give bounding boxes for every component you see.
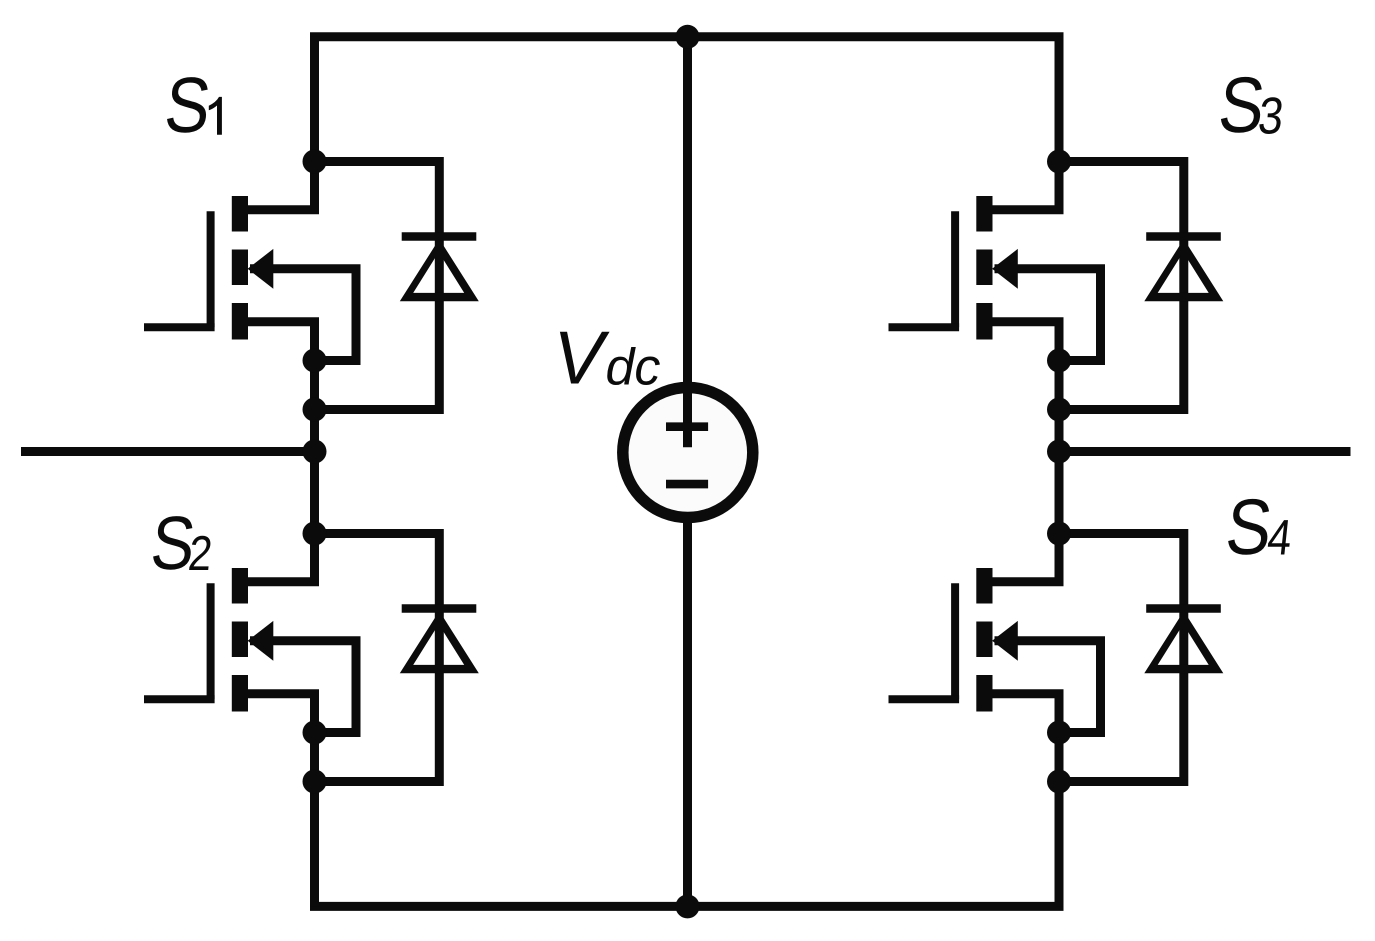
transistor Q1 body arrow (248, 249, 274, 289)
junction source/body node of Q4 (1047, 721, 1071, 745)
diode D1 cathode bar (402, 232, 477, 241)
svg-text:3: 3 (1255, 88, 1286, 146)
junction drain node of Q4 (1047, 522, 1071, 546)
wire right leg lower: Q4 source to bottom rail (993, 694, 1060, 907)
junction drain node of Q2 (303, 522, 327, 546)
wire center bottom: Vdc minus terminal to bottom rail (683, 517, 692, 906)
Vdc minus sign bar (666, 480, 708, 489)
junction top center node (676, 25, 700, 49)
junction diode anode node of D3 (1047, 398, 1071, 422)
wire center top: top rail to Vdc plus terminal (683, 37, 692, 447)
svg-text:S: S (161, 61, 215, 149)
transistor Q1 gate electrode line (207, 211, 215, 327)
transistor Q4 gate electrode line (951, 583, 959, 699)
wire diode branch loop of D3 (1059, 162, 1184, 410)
diode D2 triangle (400, 611, 479, 673)
wire top rail (positive DC bus) (310, 32, 1064, 41)
diode D2 cathode bar (402, 604, 477, 613)
node B junction dot (right output) (1047, 440, 1071, 464)
transistor Q4 body arrow (992, 621, 1018, 661)
transistor Q2 body arrow (248, 621, 274, 661)
wire diode branch loop of D2 (315, 534, 440, 782)
wire left leg lower: Q2 source to bottom rail (248, 694, 315, 907)
svg-text:dc: dc (606, 338, 661, 396)
diode D4 cathode bar (1146, 604, 1221, 613)
wire gate lead of Q3 (889, 323, 960, 331)
voltage source Vdc circle (623, 388, 753, 518)
svg-text:V: V (553, 316, 610, 400)
transistor Q4 (S4) MOSFET channel bars (976, 568, 992, 604)
diode D4 triangle (1144, 611, 1223, 673)
wire right leg upper: top rail to Q3 drain (993, 37, 1060, 210)
svg-text:4: 4 (1265, 509, 1295, 565)
transistor Q2 gate electrode line (207, 583, 215, 699)
diode D3 cathode bar (1146, 232, 1221, 241)
wire body/source tie of Q2 (250, 641, 356, 733)
wire gate lead of Q1 (144, 323, 215, 331)
junction diode anode node of D2 (303, 770, 327, 794)
wire output node B to right edge (1059, 447, 1351, 456)
junction diode anode node of D1 (303, 398, 327, 422)
wire body/source tie of Q1 (250, 269, 356, 361)
label S1 subscript 1 (209, 97, 222, 135)
transistor Q3 (S3) MOSFET channel bars (976, 196, 992, 232)
junction source/body node of Q1 (303, 349, 327, 373)
wire output node A to left edge (21, 447, 315, 456)
wire left leg middle: Q1 source through node A to Q2 drain (248, 322, 315, 582)
junction drain node of Q1 (303, 150, 327, 174)
transistor Q2 (S2) MOSFET channel bars (232, 568, 248, 604)
svg-text:2: 2 (186, 526, 215, 581)
wire gate lead of Q2 (144, 695, 215, 703)
transistor Q3 body arrow (992, 249, 1018, 289)
Vdc plus sign bar (666, 422, 708, 431)
junction bottom center node (676, 894, 700, 918)
diode D1 triangle (400, 239, 479, 301)
junction diode anode node of D4 (1047, 770, 1071, 794)
junction source/body node of Q2 (303, 721, 327, 745)
diode D3 triangle (1144, 239, 1223, 301)
node A junction dot (left output) (303, 440, 327, 464)
transistor Q1 (S1) MOSFET channel bars (232, 196, 248, 232)
wire diode branch loop of D1 (315, 162, 440, 410)
wire diode branch loop of D4 (1059, 534, 1184, 782)
wire body/source tie of Q4 (995, 641, 1101, 733)
wire right leg middle: Q3 source through node B to Q4 drain (993, 322, 1060, 582)
wire body/source tie of Q3 (995, 269, 1101, 361)
junction source/body node of Q3 (1047, 349, 1071, 373)
junction drain node of Q3 (1047, 150, 1071, 174)
wire bottom rail (negative DC bus) (310, 902, 1064, 911)
wire gate lead of Q4 (889, 695, 960, 703)
wire left leg upper: top rail to Q1 drain (248, 37, 315, 210)
transistor Q3 gate electrode line (951, 211, 959, 327)
